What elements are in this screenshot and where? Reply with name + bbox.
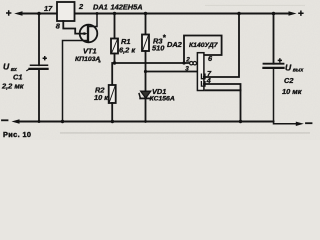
svg-text:2: 2	[78, 2, 84, 11]
svg-text:142ЕН5А: 142ЕН5А	[111, 3, 143, 12]
svg-text:510: 510	[152, 44, 165, 53]
svg-text:КП103А: КП103А	[75, 56, 100, 63]
svg-text:VT1: VT1	[83, 47, 97, 56]
svg-text:U: U	[3, 62, 10, 72]
svg-text:10 мк: 10 мк	[282, 87, 303, 96]
svg-text:С2: С2	[284, 76, 294, 85]
svg-text:К140УД7: К140УД7	[189, 42, 219, 49]
svg-text:3: 3	[185, 66, 189, 73]
svg-text:DA1: DA1	[93, 3, 108, 12]
svg-text:U: U	[285, 62, 292, 72]
svg-text:DA2: DA2	[167, 40, 183, 49]
svg-text:КС156А: КС156А	[150, 96, 175, 103]
svg-text:4: 4	[206, 76, 211, 85]
svg-text:2: 2	[185, 56, 190, 63]
svg-text:10 к: 10 к	[94, 93, 109, 102]
svg-text:17: 17	[44, 4, 53, 13]
svg-text:С1: С1	[13, 73, 22, 82]
svg-text:Рис. 10: Рис. 10	[3, 130, 31, 139]
svg-text:6,2 к: 6,2 к	[119, 46, 136, 55]
svg-text:вых: вых	[293, 68, 305, 74]
svg-text:2,2 мк: 2,2 мк	[1, 82, 25, 91]
